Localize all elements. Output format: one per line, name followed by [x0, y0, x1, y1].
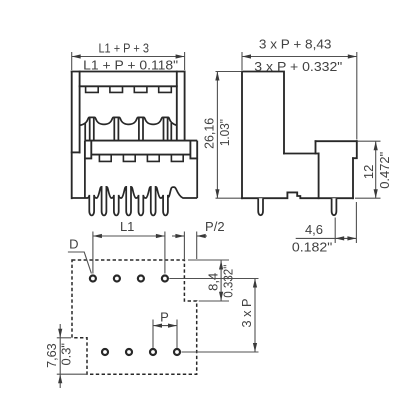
svg-text:L1: L1 — [120, 219, 134, 234]
lower notch 4 — [171, 155, 183, 162]
arrowhead right — [176, 54, 185, 58]
hole B4 — [174, 349, 180, 355]
dimension line 12 — [375, 141, 377, 198]
lower notch 1 — [99, 155, 111, 162]
upper notch 1 — [86, 86, 99, 92]
arrowhead down — [215, 189, 219, 198]
side bottom edge with notch — [242, 192, 353, 198]
extension line left — [71, 52, 73, 70]
lower notch 3 — [147, 155, 159, 162]
wave profile line — [80, 117, 177, 125]
arrowhead down — [374, 189, 378, 198]
arrowhead left — [242, 54, 251, 58]
extension right — [356, 52, 358, 140]
side plug right edge lower — [352, 158, 354, 198]
bar left end cap — [85, 141, 91, 159]
hole A3 — [138, 276, 144, 282]
front housing outer left wall — [71, 72, 73, 199]
arrowhead right — [348, 54, 357, 58]
dimension 8,4 — [188, 260, 229, 301]
front housing right wall upper — [184, 72, 186, 141]
lower body right edge — [196, 158, 198, 198]
extension top — [216, 71, 242, 73]
lower notch 2 — [123, 155, 135, 162]
side plug right edge upper — [353, 141, 357, 158]
dimension line 3xP+8,43 — [242, 56, 357, 58]
svg-text:3 x P + 8,43: 3 x P + 8,43 — [259, 37, 332, 52]
lower notch tabs row — [99, 155, 183, 162]
dimension line L1+P+3 — [72, 56, 185, 58]
svg-text:L1 + P + 3: L1 + P + 3 — [98, 41, 149, 56]
svg-text:1.03": 1.03" — [217, 119, 232, 146]
extension pin center — [334, 218, 336, 244]
lower body — [72, 158, 198, 215]
hole A4 — [162, 276, 168, 282]
extension left — [241, 52, 243, 70]
hole B1 — [102, 349, 108, 355]
dimension L1 (footprint) — [93, 232, 165, 274]
svg-text:L1 + P + 0.118": L1 + P + 0.118" — [83, 57, 178, 72]
dimension P/2 — [172, 232, 207, 260]
svg-text:0.332": 0.332" — [221, 264, 236, 297]
svg-text:3 x P + 0.332": 3 x P + 0.332" — [254, 59, 342, 74]
hole A2 — [114, 276, 120, 282]
lower body left inner wall — [84, 158, 86, 198]
side pin 1 — [258, 198, 263, 215]
bar bottom edge — [91, 154, 190, 156]
contact hatch lines — [84, 123, 86, 141]
upper notch tabs row — [86, 86, 172, 92]
extension right edge — [355, 202, 357, 243]
front right wall inner line — [176, 72, 178, 141]
dimension 7,63 — [57, 324, 86, 388]
upper notch 3 — [134, 86, 147, 92]
side plug left face — [315, 141, 317, 153]
hole B2 — [126, 349, 132, 355]
dimension line 26,16 — [216, 72, 218, 199]
extension bottom — [355, 197, 381, 199]
svg-text:0.182": 0.182" — [292, 239, 333, 254]
svg-text:7,63: 7,63 — [44, 343, 59, 368]
arrowhead right (inner) — [347, 236, 356, 240]
leader line D — [68, 252, 92, 273]
extension line right — [184, 52, 186, 70]
svg-text:3 x P: 3 x P — [239, 299, 254, 328]
hole A1 — [90, 276, 96, 282]
svg-text:26,16: 26,16 — [201, 118, 216, 149]
svg-text:D: D — [69, 237, 78, 252]
arrowhead left — [72, 54, 81, 58]
front top band bottom line — [80, 85, 177, 87]
arrowhead up — [374, 141, 378, 150]
side plug inner wall — [318, 154, 320, 199]
bar top edge — [85, 140, 197, 142]
dimension P — [153, 320, 177, 349]
dimension line 4,6 — [296, 237, 357, 239]
upper notch 4 — [159, 86, 172, 92]
svg-text:0.472": 0.472" — [377, 151, 392, 188]
front left wall inner line — [79, 72, 81, 153]
upper notch 2 — [110, 86, 123, 92]
side ledge line — [284, 153, 319, 155]
bottom contour: baseline, bosses and 7 pins — [72, 187, 198, 215]
side profile tall block — [242, 72, 284, 199]
side plug top edge — [316, 140, 357, 142]
front housing top edge — [72, 71, 185, 73]
svg-text:P: P — [160, 310, 169, 325]
top row holes — [90, 276, 180, 356]
side pin 2 — [332, 198, 337, 215]
front left wall bottom cross line — [72, 151, 80, 153]
svg-text:0.3": 0.3" — [59, 343, 74, 366]
wave (scalloped contact comb) — [80, 117, 177, 140]
hole B3 — [150, 349, 156, 355]
extension bottom — [216, 197, 242, 199]
bar right end cap — [190, 141, 197, 159]
extension top — [358, 140, 381, 142]
svg-text:4,6: 4,6 — [305, 222, 323, 237]
arrowhead up — [215, 72, 219, 81]
arrowhead left (inner) — [335, 236, 344, 240]
dimension 3 x P — [169, 279, 258, 353]
svg-text:12: 12 — [361, 165, 376, 179]
dashed outline — [72, 260, 197, 374]
svg-text:8,4: 8,4 — [206, 273, 221, 291]
middle bar (flange) — [85, 141, 197, 159]
svg-text:P/2: P/2 — [205, 219, 225, 234]
